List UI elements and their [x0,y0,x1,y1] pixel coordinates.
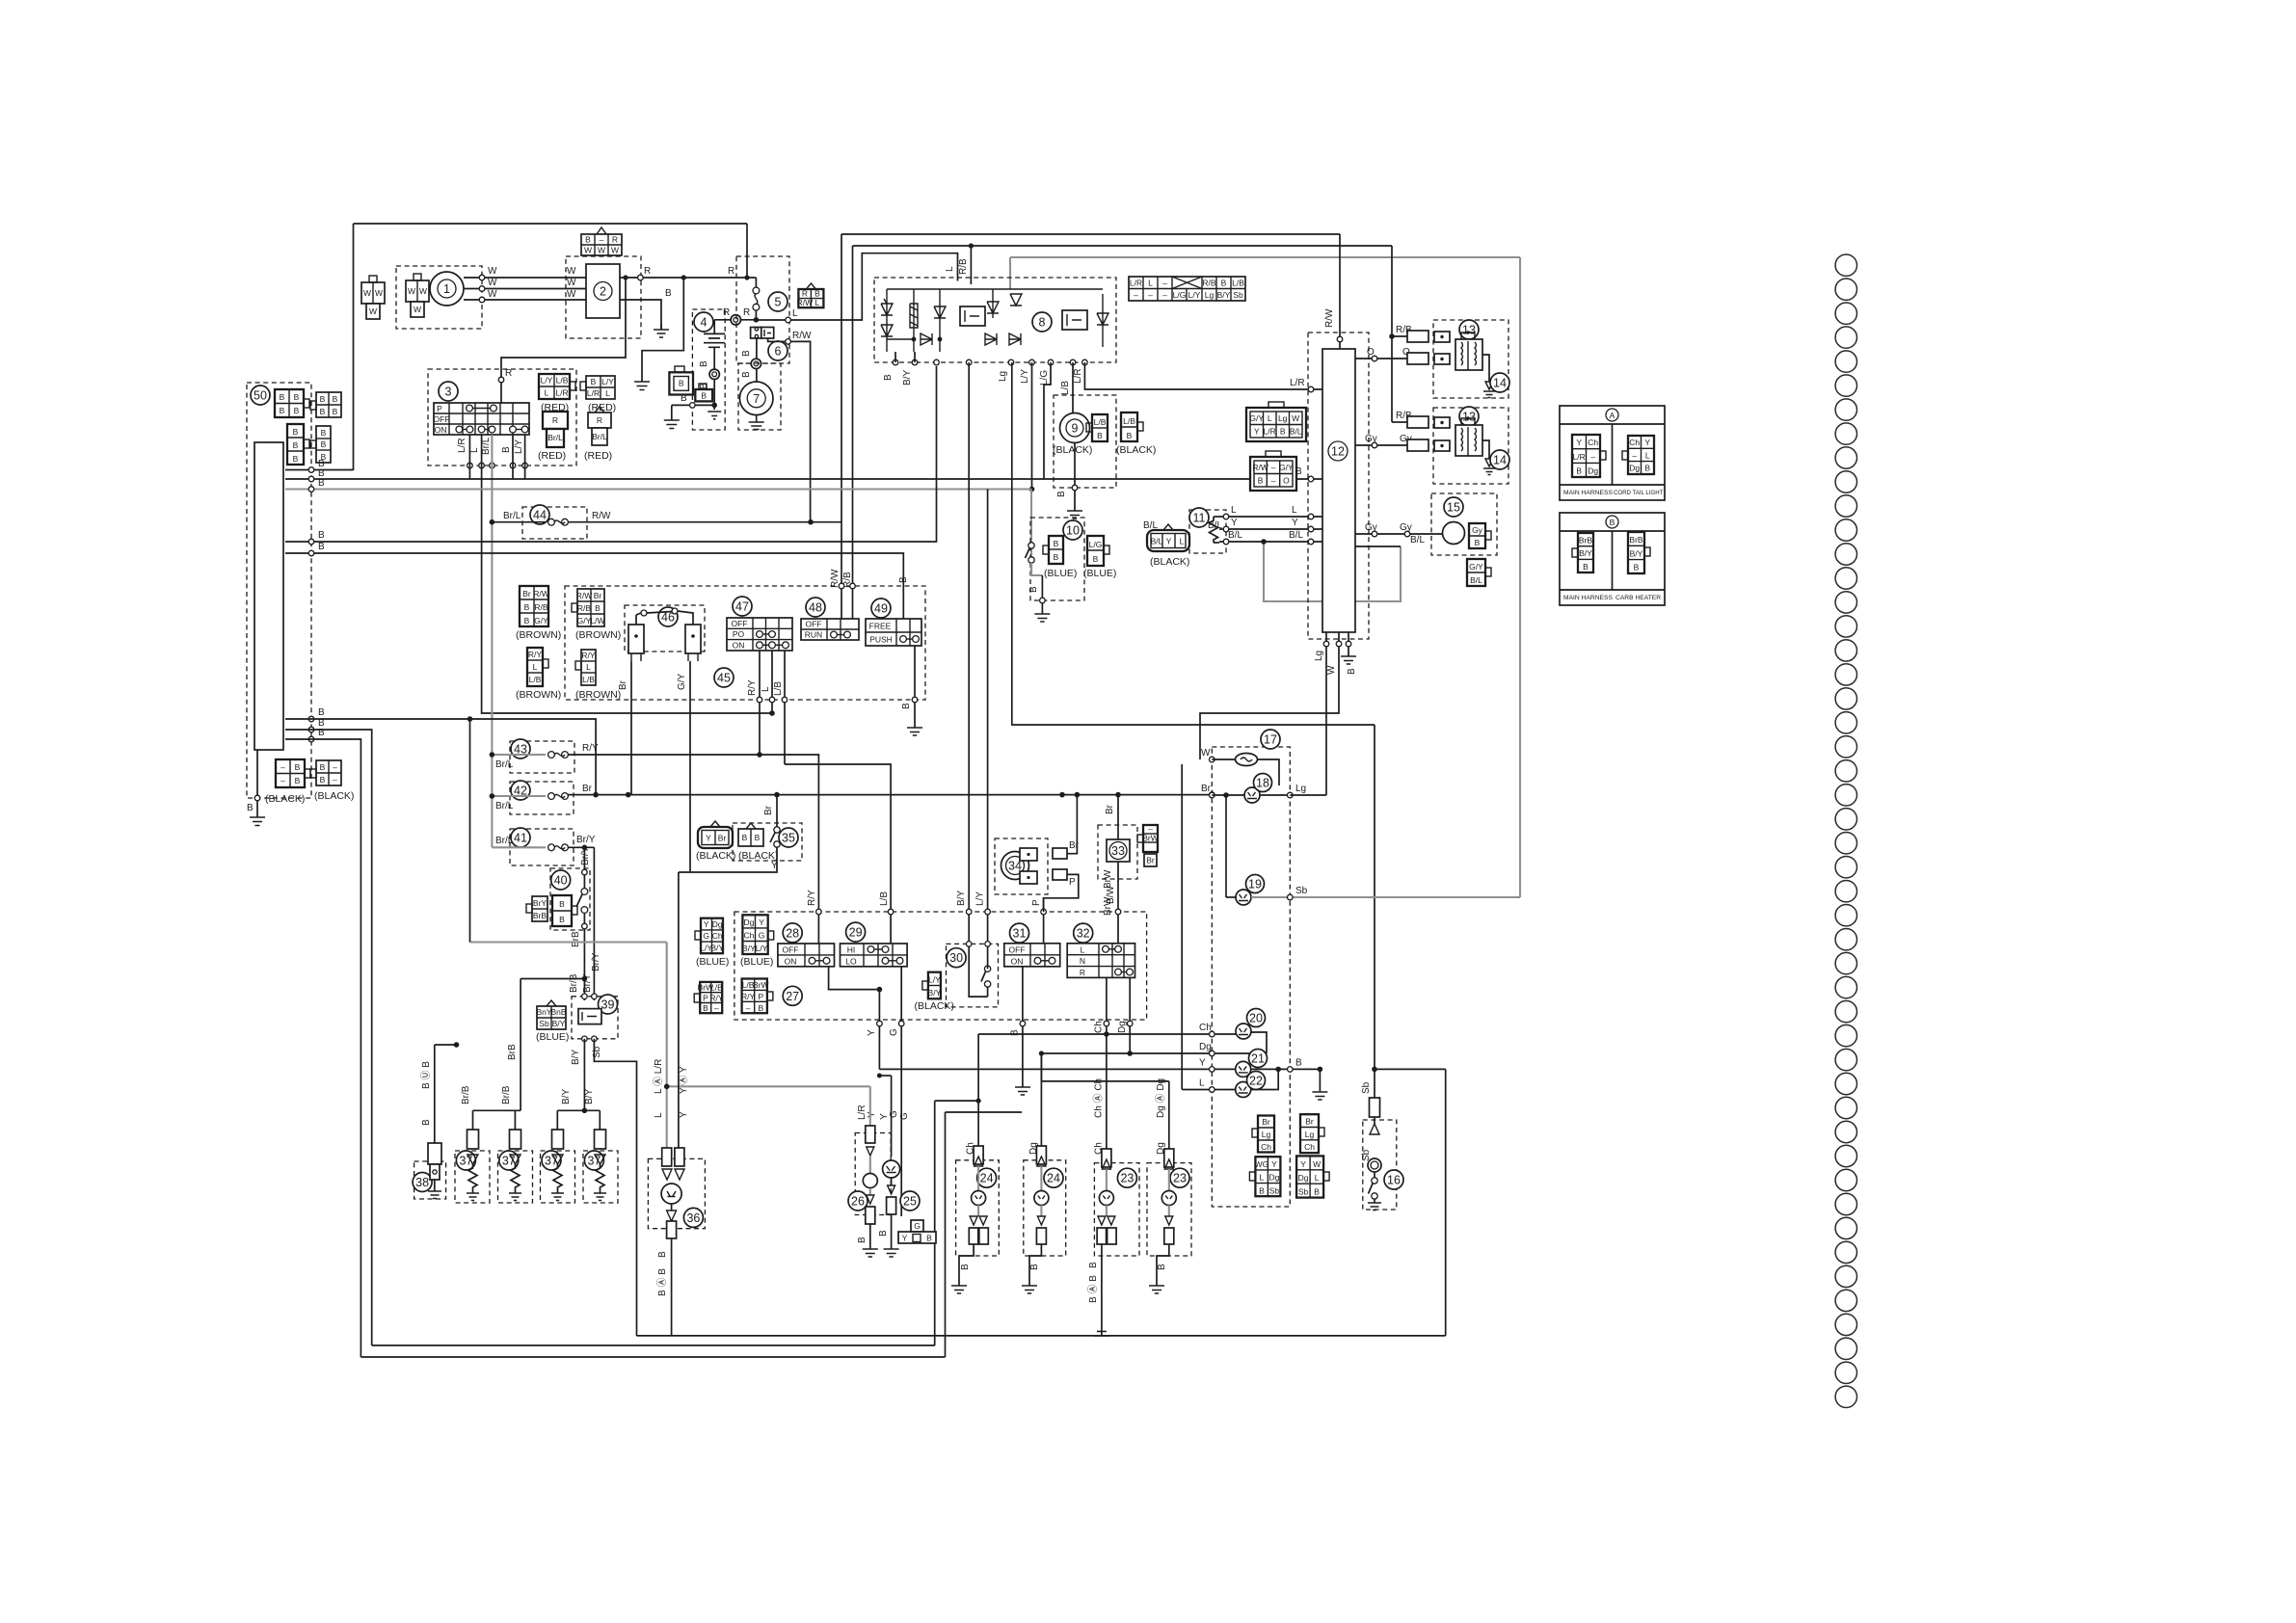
wire: bulb 20 return to Dg [1251,1032,1267,1053]
svg-text:G/Y: G/Y [1469,562,1483,572]
fuse 42 dashed box [510,782,574,814]
bulb 20 neutral indicator [1236,1024,1251,1039]
B bus stub circles on dashed edge [308,467,314,473]
svg-text:B: B [295,776,301,785]
svg-text:B/Y: B/Y [956,891,967,906]
connector 2x2 B dash (BLACK) right [310,760,341,785]
wire: R/Y from fuse 43 to dimmer feed [568,755,818,944]
wire: L/B run to dimmer switch [785,764,891,944]
wire: gray B/L loop under CDI [1264,542,1401,601]
svg-text:B/L: B/L [1228,530,1242,541]
fuse 41 symbol [548,844,555,851]
svg-text:23: 23 [1173,1172,1187,1185]
svg-text:B: B [657,1251,668,1258]
svg-text:L: L [605,388,610,398]
lamp chain 24 right [1022,1142,1049,1293]
wire: Br output of fuse 42 joins Br bus [568,794,1212,796]
svg-text:R/B: R/B [958,258,969,275]
svg-text:W: W [414,305,421,314]
svg-text:Br: Br [763,805,774,815]
svg-text:Br: Br [718,834,727,843]
svg-text:P: P [758,992,763,1001]
svg-text:B: B [421,1119,432,1126]
svg-text:W: W [567,289,576,300]
bulb 19 turn indicator [1236,890,1251,905]
svg-text:Y: Y [1254,427,1260,437]
wire: B down to ground from meter [1319,1069,1321,1092]
svg-text:Lg: Lg [1314,651,1324,661]
fuse 44 symbol [548,519,555,525]
svg-text:BrW: BrW [1103,896,1113,916]
svg-text:L: L [545,388,549,398]
wire: B bus line 2 start [285,478,311,480]
svg-text:Br: Br [1069,840,1080,851]
svg-text:(BLACK): (BLACK) [738,850,778,862]
wire: bottom rail 3 [360,1356,945,1358]
connector Dg Y / Ch G / B/Y L/Y (BLUE) [742,915,774,954]
horn 15 dashed box [1431,493,1497,555]
svg-text:L/Y: L/Y [541,376,553,386]
connector Y W / Dg L / Sb B [1296,1156,1329,1197]
svg-text:B/L: B/L [1290,427,1302,437]
svg-text:WG: WG [1255,1159,1269,1169]
svg-text:BrB: BrB [533,911,547,920]
svg-text:B: B [1644,464,1650,473]
svg-text:W: W [419,286,427,296]
svg-text:BnB: BnB [550,1007,566,1017]
wire: Lg from diode block down then right to breaker line [1012,362,1375,725]
switch 46 plugs [628,608,701,661]
connector BnY BnB / Sb B/Y (BLUE) [536,1000,566,1029]
wire: R/B vertical to ignition coils [1391,246,1393,422]
meter light 34 [1001,852,1029,880]
ground: rectifier B [654,324,669,337]
svg-text:Y: Y [1271,1159,1277,1169]
connector R B / R/W L [797,283,824,307]
svg-text:R: R [1080,968,1085,977]
svg-text:B: B [1258,476,1264,486]
svg-text:Y: Y [1199,1057,1206,1068]
headlight 36 [656,1148,684,1336]
svg-text:B: B [293,454,299,464]
svg-text:24: 24 [980,1172,994,1185]
wire: B bus line 3 start [285,488,311,490]
svg-text:(BLUE): (BLUE) [1083,568,1116,579]
svg-text:W: W [488,278,497,288]
battery 4 dashed box [692,309,725,430]
svg-text:OFF: OFF [434,414,450,424]
svg-text:–: – [600,235,604,245]
svg-text:B: B [1097,431,1103,440]
wire: bottom rail 1 [637,1335,1446,1337]
svg-text:–: – [1134,290,1138,300]
wire: Br from switch 46 down to Br bus [630,661,632,795]
svg-text:45: 45 [717,672,731,685]
diode block 8 internals [881,289,1108,352]
svg-text:Dg: Dg [1268,1173,1279,1183]
connector 3x1 B B B right [310,426,331,463]
front turn signal 24 left dashed box [956,1160,1000,1256]
svg-text:Br: Br [1305,1117,1314,1127]
starting circuit cut-off relay 39 dashed box [572,997,618,1039]
svg-text:Lg: Lg [998,371,1008,382]
svg-text:B: B [559,915,565,924]
svg-text:Br: Br [1262,1117,1270,1127]
connector BrY/BrB 2 pin [526,896,547,921]
svg-text:B: B [318,478,325,489]
connector R/W Br / R/B B / G/Y L/W (BROWN) [572,589,605,626]
svg-text:P: P [437,404,442,413]
svg-text:B: B [333,394,338,404]
wire: R/W from fuse 44 to R/W vertical [568,521,841,523]
svg-text:BrB: BrB [571,931,581,947]
svg-text:B: B [1056,491,1067,497]
wire: R/B vertical feeding engine stop switch [852,246,854,622]
connector R / Br/L (RED) [543,412,568,447]
connector B/B 2 pin switch 40 [552,895,577,926]
connector B B (BLACK) [738,823,763,846]
svg-text:Y: Y [759,918,764,927]
svg-text:L/B: L/B [1232,279,1244,288]
neutral switch 10 dashed box [1030,518,1084,600]
svg-text:R/Y: R/Y [709,993,724,1002]
svg-text:B/Y: B/Y [1630,548,1643,558]
svg-text:L: L [469,447,480,453]
svg-text:21: 21 [1251,1052,1265,1066]
svg-text:10: 10 [1066,524,1080,538]
wire: R/B top run [853,245,1393,247]
svg-text:B: B [1314,1187,1320,1197]
svg-text:Y: Y [879,1113,890,1120]
connector 3x1 B B B [287,424,309,465]
svg-text:Dg: Dg [1629,464,1640,473]
svg-text:BrY: BrY [533,898,547,908]
bulb 21 oil indicator [1236,1061,1251,1077]
main fuse 5 dashed box [736,256,789,363]
svg-text:–: – [714,1003,719,1013]
wire: L column down then right [482,435,772,713]
svg-text:29: 29 [849,926,863,940]
svg-text:BnY: BnY [536,1007,551,1017]
svg-text:B/Y: B/Y [710,943,724,952]
svg-text:N: N [1080,956,1085,966]
connector R/Y L L/B (BROWN) 2 [575,650,596,685]
wire: L/R line into CDI [1084,362,1322,389]
svg-text:15: 15 [1447,501,1460,515]
svg-text:Gy: Gy [1400,522,1412,533]
svg-text:PUSH: PUSH [869,635,893,645]
wire: Sb breaker vertical down [1374,725,1375,1099]
svg-text:Y: Y [771,861,778,871]
svg-text:B: B [320,775,326,785]
svg-text:B: B [1280,427,1286,437]
svg-text:Br/L: Br/L [495,801,514,811]
svg-text:L/G: L/G [1039,370,1050,386]
pilot box 34 dashed box [995,838,1048,894]
svg-text:Gy: Gy [1365,434,1377,444]
svg-text:L: L [586,662,591,672]
svg-text:OFF: OFF [806,620,822,629]
fuse 43 symbol [548,752,555,758]
svg-text:B: B [321,428,327,438]
svg-text:R/W: R/W [592,511,611,521]
svg-text:Ch: Ch [712,931,723,941]
svg-text:Ch: Ch [1588,438,1598,447]
brake switch 35 dashed box [733,823,802,861]
svg-text:R: R [612,235,618,245]
svg-text:B: B [320,762,326,772]
wire: Br/W feed into 32 [1117,862,1119,944]
svg-text:OFF: OFF [1009,945,1026,954]
svg-text:(BLACK): (BLACK) [265,793,305,805]
svg-text:Lg: Lg [1305,1130,1315,1139]
svg-text:Br/Y: Br/Y [580,846,591,865]
wire: B bus to 562 line [285,366,937,542]
svg-text:L/B: L/B [1123,416,1135,426]
coil 2 terminals [1407,416,1450,451]
svg-text:W: W [408,286,415,296]
svg-text:B: B [1295,1057,1302,1068]
svg-text:Dg: Dg [1199,1042,1212,1052]
wire: Br/Y from fuse 41 [568,846,594,848]
svg-text:Gy: Gy [1365,522,1377,533]
switch 40 contacts [581,889,588,895]
svg-text:BrW: BrW [1142,834,1159,843]
svg-text:Br: Br [582,784,593,794]
wire: L feed from lighting switch down [1181,764,1183,1090]
svg-text:B: B [293,427,299,437]
svg-text:–: – [1148,824,1153,834]
svg-text:(BLACK): (BLACK) [314,790,354,802]
svg-text:B: B [1475,538,1481,547]
svg-text:R/Y: R/Y [582,743,599,754]
connector dash BrW Br beside 33 [1137,824,1159,866]
bulb 22 fuel indicator [1236,1082,1251,1098]
wire: L/Y up from switch 30 [987,490,989,970]
svg-text:Br/L: Br/L [547,433,563,442]
svg-text:14: 14 [1493,377,1507,390]
svg-text:Y: Y [902,1234,908,1243]
svg-text:L/Y: L/Y [928,975,941,985]
svg-text:(BLACK): (BLACK) [1150,556,1189,568]
wire color legend table [1129,277,1245,301]
svg-text:P: P [1031,899,1042,906]
svg-text:B: B [318,530,325,541]
connector G / Y B at taillight [898,1220,936,1243]
svg-text:B/Y: B/Y [1217,290,1231,300]
engine stop switch 48 table [801,619,859,640]
svg-text:B Ⓐ B: B Ⓐ B [1087,1275,1099,1303]
svg-text:Sb: Sb [1269,1185,1280,1195]
wire: L row through bulb 22 [1182,1089,1236,1091]
svg-text:G/Y: G/Y [677,673,687,690]
svg-text:Y: Y [867,1029,877,1036]
svg-text:L/B: L/B [879,891,890,906]
wire: B below 10 to ground [1041,575,1043,614]
wire: three W phase wires magneto to rectifier [464,277,586,279]
lamp resistor units 37 x4 [455,1130,490,1203]
throttle position sensor 11 dashed box [1189,510,1226,553]
starter motor 7 dashed box [738,363,781,430]
svg-text:B: B [1010,1029,1021,1036]
svg-text:–: – [1162,290,1167,300]
svg-text:B: B [741,371,752,378]
svg-text:R/W: R/W [797,298,814,307]
connector G/Y L Lg W / Y L/R B B/L 8 pin [1246,402,1306,441]
wire: B output of rectifier to ground [620,300,661,330]
svg-text:Y: Y [679,1111,689,1118]
svg-text:Sb: Sb [1295,886,1308,896]
svg-text:R/Y: R/Y [747,679,758,696]
wire: B column to B bus [512,435,514,479]
svg-text:19: 19 [1248,878,1262,891]
svg-text:BrW: BrW [753,980,769,990]
svg-text:27: 27 [786,990,799,1003]
coil 2 windings [1455,416,1482,456]
svg-text:L/R: L/R [1130,279,1142,288]
svg-text:MAIN HARNESS: MAIN HARNESS [1563,490,1613,496]
svg-text:O: O [1367,347,1375,358]
svg-text:B: B [294,406,300,415]
wire: B bus gray line [311,488,1031,490]
connector B B (BLUE) [1043,536,1063,564]
svg-text:L: L [1148,279,1153,288]
meter assembly 17 dashed box [1212,747,1290,1207]
wire: B from start switch to ground [914,646,916,728]
wire: Y down to pilot lamp line [878,990,880,1070]
svg-text:B: B [321,439,327,449]
wire: B below relay to starter motor [756,338,758,382]
svg-text:L: L [815,298,820,307]
connector B L/Y / L/R L (RED) [580,376,615,399]
svg-text:L/B: L/B [582,675,595,684]
svg-text:R/Y: R/Y [528,650,543,659]
svg-text:–: – [1590,452,1595,462]
svg-text:G: G [759,931,765,941]
svg-text:W: W [1292,413,1299,423]
svg-text:L: L [1292,505,1297,516]
svg-text:W: W [369,306,377,316]
throttle sensor connector B/L Y L (BLACK) [1147,524,1189,551]
svg-text:R: R [597,415,602,425]
svg-text:B: B [1157,1264,1167,1270]
svg-text:R/W: R/W [792,331,812,341]
wire: Sb gray vertical from diode block up [1009,257,1011,289]
svg-text:–: – [746,1003,751,1013]
svg-text:L: L [1315,1173,1320,1183]
svg-text:B: B [1221,279,1227,288]
svg-text:L/R: L/R [457,438,467,453]
svg-text:LO: LO [845,956,857,966]
connector R/W - G/Y / B - O 6 pin [1250,451,1296,491]
svg-text:B: B [857,1237,868,1243]
wire: Lg from CDI joins bulb 18 [1290,794,1326,796]
svg-text:B: B [1029,1264,1040,1270]
svg-text:Ch: Ch [1094,1021,1105,1033]
wire: Br/L gray column down to fuse bank [491,435,493,847]
svg-text:(BLUE): (BLUE) [696,956,729,968]
svg-text:1: 1 [443,282,450,296]
svg-text:6: 6 [775,345,782,359]
svg-text:49: 49 [874,602,888,616]
svg-text:Lg: Lg [1205,290,1215,300]
wire: R feed down to main switch [501,278,626,403]
svg-text:(BROWN): (BROWN) [575,689,621,701]
svg-text:BrB: BrB [507,1044,518,1060]
svg-text:(BLACK): (BLACK) [1116,444,1156,456]
svg-text:35: 35 [782,832,795,845]
svg-text:22: 22 [1249,1075,1263,1088]
svg-text:(BLACK): (BLACK) [1053,444,1092,456]
svg-text:L/R: L/R [1573,452,1586,462]
svg-text:B: B [1028,586,1039,593]
brake light 25 [900,1191,920,1211]
svg-text:Y Ⓐ Y: Y Ⓐ Y [678,1066,689,1094]
svg-text:L/Y: L/Y [975,891,986,906]
svg-text:–: – [280,762,285,772]
svg-text:G: G [889,1028,899,1036]
svg-text:30: 30 [949,951,963,965]
svg-text:B: B [1347,668,1357,675]
svg-text:14: 14 [1493,454,1507,467]
svg-text:B/Y: B/Y [742,944,756,953]
wire: Ch output of 32 [1106,977,1108,1034]
svg-text:Dg: Dg [1117,1021,1128,1033]
pickup coil 9 dashed box [1054,395,1116,488]
svg-text:Y: Y [1576,438,1582,447]
svg-text:Y: Y [1300,1159,1306,1169]
svg-text:ON: ON [1011,956,1024,966]
svg-text:PO: PO [733,629,745,639]
wire: Sb gray vertical down right side [1519,257,1521,897]
svg-text:–: – [1271,476,1276,486]
svg-text:L/R: L/R [1073,368,1083,384]
svg-text:B: B [703,1003,708,1013]
svg-text:L/Y: L/Y [601,377,614,386]
wire: gray drop into neutral switch 10 [1030,490,1032,576]
flywheel magneto 1 dashed box [396,266,482,329]
wire: Ch-Dg crosslinks to rails [935,1100,978,1102]
svg-text:28: 28 [786,926,799,940]
svg-text:L/Y: L/Y [1188,290,1201,300]
svg-text:38: 38 [415,1176,429,1189]
meter illumination lamp W [1210,757,1215,762]
connector W W / W outside [361,276,385,319]
svg-text:50: 50 [254,389,267,403]
reference box A [1560,406,1665,500]
svg-text:–: – [1162,279,1167,288]
svg-text:B: B [591,377,597,386]
wire: Br/L into fuse 42 [492,795,546,797]
starter motor 7 [739,382,773,415]
svg-text:L/R: L/R [1264,427,1276,437]
svg-text:Ch: Ch [1304,1142,1315,1152]
junction R line to battery branch [681,275,686,279]
svg-text:ON: ON [435,425,447,435]
svg-text:–: – [280,776,285,785]
svg-text:L/B: L/B [1060,381,1071,395]
wires below 47: R/Y L L/B [759,651,761,755]
main switch 3 contact table [434,403,530,435]
fuse 43 dashed box [510,741,574,773]
svg-text:R/W: R/W [533,589,549,599]
svg-text:L/B: L/B [710,983,723,993]
connector L/Y L/B / L L/R (RED) [539,374,575,399]
svg-text:W: W [488,289,497,300]
svg-text:B: B [501,446,512,453]
svg-text:Br/L: Br/L [495,759,514,770]
connector W W / W inside magneto box [406,274,429,317]
